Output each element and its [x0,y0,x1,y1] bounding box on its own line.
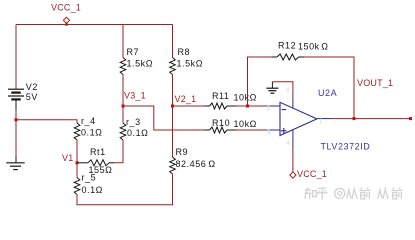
wire ground to op-amp V+ pin [272,82,293,99]
wire VCC rail [16,24,173,26]
resistor r_5 0.1ohm [74,163,103,195]
svg-text:1.5kΩ: 1.5kΩ [127,59,154,69]
battery V2 5V [8,82,38,110]
junction feedback node [246,105,249,108]
op-amp U2A TLV2372ID [266,88,370,151]
wire left branch to battery [15,25,17,89]
wire Rt1 right to r_3 bottom [114,140,123,163]
svg-text:r_3: r_3 [126,117,141,127]
ground (left) [6,156,24,170]
junction output/R12 [353,117,356,120]
node V3_1 [122,91,146,108]
svg-text:5V: 5V [26,92,38,102]
wire r_4 to node V1 [76,140,78,163]
svg-text:1.5kΩ: 1.5kΩ [177,59,204,69]
node VOUT_1 [357,78,412,120]
power symbol VCC_1 (bottom) [290,169,327,179]
node V1 [62,153,79,164]
svg-text:V1: V1 [62,153,73,163]
wire V2_1 to R11 [173,105,205,107]
svg-text:R12: R12 [278,41,296,51]
ground (op-amp supply) [266,82,278,94]
wire battery node to r_4 [16,120,77,123]
svg-text:r_4: r_4 [81,116,96,126]
svg-text:10kΩ: 10kΩ [234,119,257,129]
wire R8 bottom to node V2_1 [172,75,174,107]
svg-text:82.456Ω: 82.456Ω [176,159,216,169]
resistor Rt1 155ohm [77,147,114,175]
wire R10 to op-amp non-inverting input [236,129,267,131]
resistor R11 10k [205,91,257,109]
resistor R12 150k [272,41,329,61]
resistor R7 1.5k [120,25,153,75]
wire to ground [15,120,17,156]
wire op-amp output to VOUT [332,118,411,120]
svg-text:R11: R11 [212,91,230,101]
svg-text:0.1Ω: 0.1Ω [82,185,103,195]
wire R12 to output node [304,57,354,119]
svg-text:V2_1: V2_1 [175,94,197,104]
svg-text:VCC_1: VCC_1 [51,2,81,12]
watermark zhihu [305,188,403,200]
resistor R8 1.5k [170,25,203,75]
svg-text:V3_1: V3_1 [124,91,146,101]
resistor R9 82.456ohm [170,106,216,174]
svg-text:V2: V2 [26,82,38,92]
resistor r_4 0.1ohm [74,116,102,140]
wire feedback to R12 [248,57,272,106]
svg-text:VCC_1: VCC_1 [297,169,327,179]
svg-text:TLV2372ID: TLV2372ID [321,141,371,151]
svg-text:R9: R9 [176,147,189,157]
wire bottom rail [77,174,173,205]
svg-text:R8: R8 [178,47,191,57]
svg-text:0.1Ω: 0.1Ω [127,128,148,138]
svg-text:VOUT_1: VOUT_1 [357,78,393,88]
wire R11 to op-amp inverting input [236,105,267,107]
svg-text:Rt1: Rt1 [90,147,106,157]
power symbol VCC_1 (top) [51,2,81,25]
svg-text:R10: R10 [212,118,230,128]
resistor R10 10k [205,118,257,133]
svg-text:10kΩ: 10kΩ [234,92,257,102]
svg-text:U2A: U2A [318,88,337,98]
wire V3_1 to R10 [123,106,205,130]
resistor r_3 0.1ohm [120,106,148,140]
svg-text:0.1Ω: 0.1Ω [81,128,102,138]
node V2_1 [171,94,196,107]
junction battery/ground node [15,118,18,121]
svg-text:R7: R7 [127,47,140,57]
svg-text:150kΩ: 150kΩ [298,41,329,51]
wire op-amp V- pin to VCC [292,148,294,172]
svg-text:r_5: r_5 [82,173,97,183]
wire battery bottom lead [15,110,17,120]
wire R7 bottom to node V3_1 [122,75,124,107]
